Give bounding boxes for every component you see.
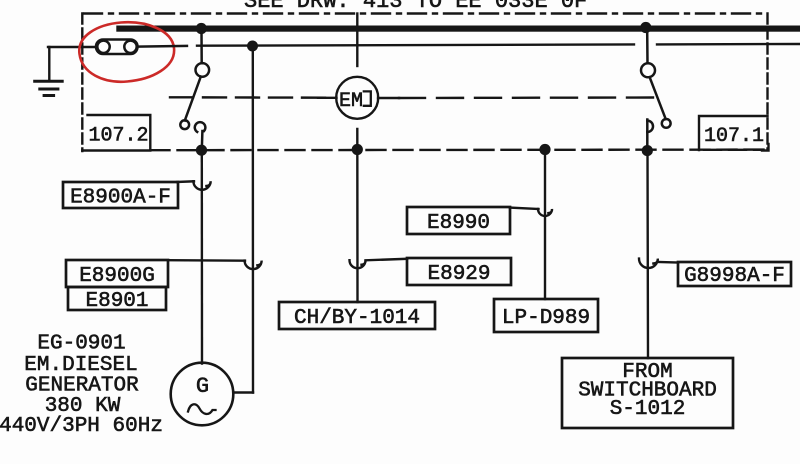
zone box 107.2 xyxy=(82,115,150,151)
wire: ground lead to fuse xyxy=(48,46,96,48)
text: generator nameplate xyxy=(0,333,163,439)
svg-text:E8990: E8990 xyxy=(427,212,490,235)
fuse F1 xyxy=(96,40,138,55)
border: left dashed zone line xyxy=(81,14,83,152)
svg-text:LP-D989: LP-D989 xyxy=(502,307,590,330)
wire: vertical drop x=545 (LP-D989) xyxy=(544,150,546,300)
label box E8900G xyxy=(66,260,168,288)
svg-text:E8900A-F: E8900A-F xyxy=(70,187,171,210)
leader: G8998A-F to hook xyxy=(658,261,678,264)
bus: main 440V emergency bus (thick) xyxy=(116,26,800,32)
node: junction x=647 on dashed line xyxy=(642,145,653,156)
node: junction x=357 on dashed line xyxy=(352,144,363,155)
leader: E8900A-F to hook xyxy=(177,180,194,183)
contact hook on x=648 xyxy=(639,259,658,268)
svg-text:SEE DRW. 413 TO EE 033E 0F: SEE DRW. 413 TO EE 033E 0F xyxy=(244,0,587,14)
wire: feeder line under bus (left span) xyxy=(138,45,188,48)
svg-text:107.1: 107.1 xyxy=(704,125,764,148)
breaker CB1 (generator breaker) xyxy=(180,32,209,150)
label box FROM SWITCHBOARD S-1012 xyxy=(562,358,733,428)
wire: feeder line under bus (middle span) xyxy=(197,44,634,45)
node: junction x=201 on dashed line xyxy=(196,145,207,156)
annotation: red hand-drawn ellipse xyxy=(79,22,174,82)
svg-text:E8929: E8929 xyxy=(427,263,490,286)
ground xyxy=(35,47,63,96)
wire: vertical drop x=648 (from switchboard) xyxy=(646,151,649,358)
meter EMI xyxy=(336,77,378,119)
svg-text:107.2: 107.2 xyxy=(88,125,148,148)
label box LP-D989 xyxy=(494,299,598,332)
svg-text:EG-0901: EG-0901 xyxy=(37,333,125,356)
label box CH/BY-1014 xyxy=(279,302,435,330)
svg-text:E8901: E8901 xyxy=(85,290,148,313)
node: bus tap for breaker CB2 xyxy=(640,22,651,33)
contact hook on x=545 xyxy=(538,209,552,216)
label box G8998A-F xyxy=(678,262,791,288)
leader: E8929 to hook xyxy=(366,259,408,261)
wire: vertical drop x=202 (generator feed) xyxy=(201,150,204,364)
svg-text:G8998A-F: G8998A-F xyxy=(684,265,785,288)
contact hook on x=357 xyxy=(350,260,366,268)
wire: vertical drop x=357 (EMI / CH/BY-1014) xyxy=(356,14,358,67)
zone box 107.1 xyxy=(699,116,769,151)
svg-text:G: G xyxy=(196,374,209,399)
label box E8900A-F xyxy=(63,182,178,210)
svg-text:S-1012: S-1012 xyxy=(610,398,686,421)
breaker CB2 (switchboard tie breaker) xyxy=(641,32,671,151)
label box E8901 xyxy=(68,287,166,313)
border: right dashed zone line xyxy=(766,14,768,151)
leader: E8990 to hook xyxy=(510,208,539,209)
svg-text:CH/BY-1014: CH/BY-1014 xyxy=(294,307,420,330)
border: top dash-dot zone line xyxy=(84,12,768,14)
svg-text:EM: EM xyxy=(339,90,363,113)
wire: dashed distribution line y=150 xyxy=(151,148,768,151)
node: feeder tap x=252 xyxy=(247,41,258,52)
wire: vertical drop x=253 xyxy=(252,46,255,393)
wire: elbow to generator right side xyxy=(234,391,254,393)
svg-text:440V/3PH 60Hz: 440V/3PH 60Hz xyxy=(0,415,163,438)
label box E8990 xyxy=(407,207,510,235)
leader: E8900G to hook xyxy=(168,259,245,262)
wire: feeder line under bus (right span) xyxy=(657,43,800,46)
contact hook on x=253 xyxy=(245,261,262,270)
node: junction x=545 on dashed line xyxy=(539,144,550,155)
wire: dash-dot line through EMI xyxy=(170,96,330,99)
node: bus tap for breaker CB1 xyxy=(196,23,207,34)
svg-text:E8900G: E8900G xyxy=(79,265,155,288)
contact hook on x=202 xyxy=(193,181,210,190)
generator G (EG-0901) xyxy=(171,363,234,426)
label box E8929 xyxy=(407,258,511,286)
